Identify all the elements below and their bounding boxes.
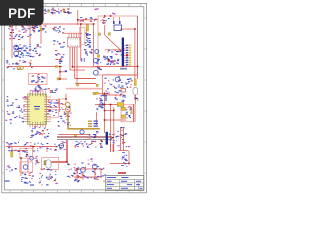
- svg-text:PDF: PDF: [8, 6, 35, 21]
